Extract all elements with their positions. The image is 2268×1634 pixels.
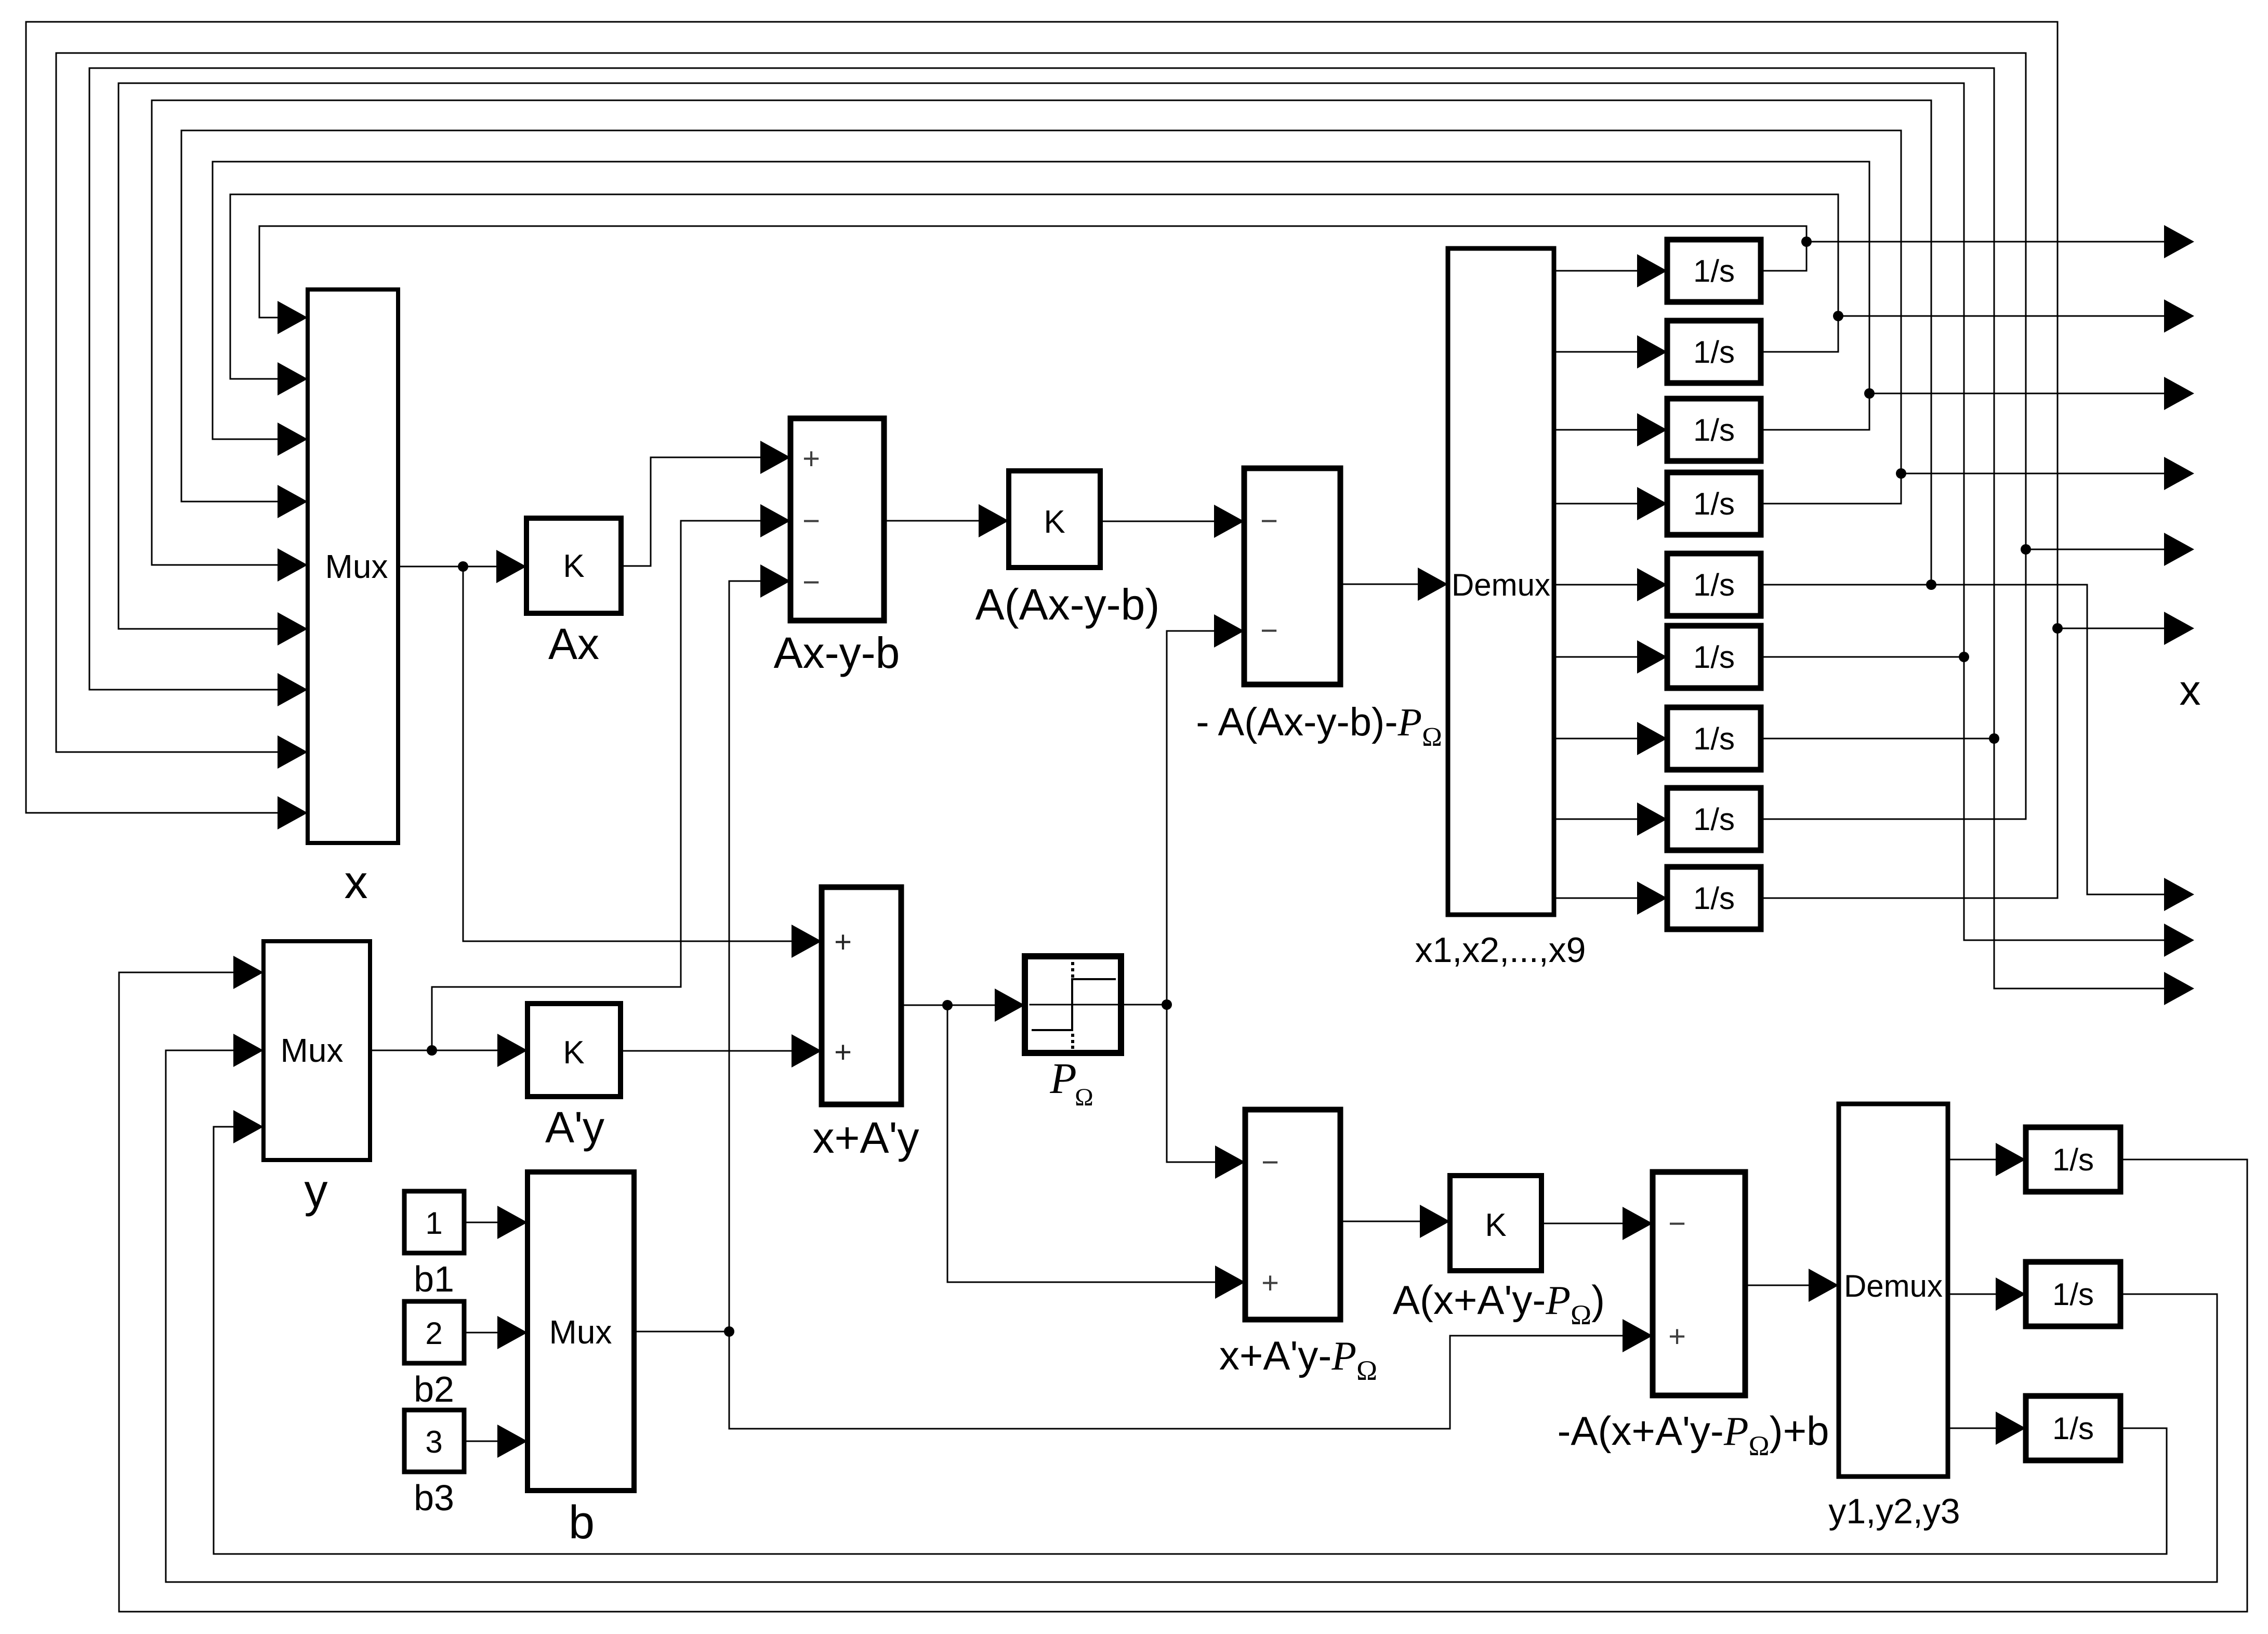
sum block x+A'y-P_Omega xyxy=(1245,1110,1340,1320)
svg-text:Mux: Mux xyxy=(281,1032,344,1069)
sum block Ax-y-b xyxy=(790,418,884,621)
integrator block 1/s y2 xyxy=(2026,1262,2120,1326)
svg-text:3: 3 xyxy=(425,1425,442,1459)
svg-text:Mux: Mux xyxy=(325,548,388,585)
junction + output arrow x3 xyxy=(1864,388,1875,399)
feedback wire integrator 9 around top to Mux-x input 9 xyxy=(26,22,2058,898)
mux block X (9-input Mux) xyxy=(308,289,398,843)
wire Demux x output 7 to integrator 1/s #7 xyxy=(1554,738,1637,740)
wire x+A'y tap down to sum x+A'y-P plus input xyxy=(947,1005,1215,1282)
svg-text:K: K xyxy=(1485,1207,1506,1243)
wire sum Ax-y-b to gain A(Ax-y-b) xyxy=(884,520,979,522)
mux block Y (3-input Mux) xyxy=(263,941,370,1160)
svg-text:1/s: 1/s xyxy=(2052,1277,2094,1312)
wire sum2 to Demux x xyxy=(1340,584,1418,585)
integrator block 1/s #3 xyxy=(1667,399,1761,461)
integrator block 1/s #2 xyxy=(1667,321,1761,383)
svg-text:x: x xyxy=(345,856,368,908)
svg-text:Demux: Demux xyxy=(1844,1269,1943,1303)
saturation block P_Omega xyxy=(1025,956,1121,1053)
junction + output arrow x8 (fifth arrow) xyxy=(2021,544,2031,555)
feedback wire integrator y2 around bottom to Mux-y input 2 xyxy=(166,1050,2217,1582)
feedback wire integrator y3 around bottom to Mux-y input 3 xyxy=(214,1127,2167,1554)
wire Demux x output 1 to integrator 1/s #1 xyxy=(1554,270,1637,272)
svg-text:b: b xyxy=(569,1497,595,1549)
svg-text:−: − xyxy=(1668,1207,1686,1241)
svg-text:1: 1 xyxy=(425,1206,442,1241)
wire sum5 to Demux y xyxy=(1745,1285,1809,1286)
integrator block 1/s #9 xyxy=(1667,867,1761,929)
wire constant 3 to Mux b input 3 xyxy=(464,1441,497,1442)
svg-text:y1,y2,y3: y1,y2,y3 xyxy=(1828,1492,1960,1531)
junction + output arrow x2 xyxy=(1833,311,1843,321)
wire gain A(x+A'y-P) to sum5 minus input xyxy=(1541,1223,1623,1224)
wire integrator7 down to lower output arrow xyxy=(1994,739,2165,989)
sum block x+A'y xyxy=(822,887,901,1104)
wire Mux-x output to gain Ax xyxy=(398,566,496,568)
mux block b (3-input Mux) xyxy=(528,1172,634,1491)
svg-text:K: K xyxy=(563,548,584,584)
wire Demux y output 2 to integrator 1/s y2 xyxy=(1948,1294,1996,1295)
wire gain A'y to sum x+A'y input 2 xyxy=(621,1050,792,1052)
feedback wire integrator 1 around top to Mux-x input 1 xyxy=(259,226,1807,318)
integrator block 1/s #4 xyxy=(1667,472,1761,535)
wire gain A(Ax-y-b) to sum -A(Ax-y-b)-P xyxy=(1100,521,1214,522)
constant block 2 (value 2) xyxy=(404,1301,464,1363)
junction + output arrow x9 (sixth arrow) xyxy=(2052,623,2063,634)
wire Demux x output 2 to integrator 1/s #2 xyxy=(1554,351,1637,353)
svg-text:1/s: 1/s xyxy=(1693,335,1735,370)
svg-text:+: + xyxy=(802,442,820,476)
wire Demux x output 6 to integrator 1/s #6 xyxy=(1554,656,1637,658)
wire Demux y output 3 to integrator 1/s y3 xyxy=(1948,1428,1996,1429)
wire Demux x output 3 to integrator 1/s #3 xyxy=(1554,429,1637,431)
wire Demux x output 4 to integrator 1/s #4 xyxy=(1554,503,1637,505)
wire saturation output to junction xyxy=(1121,1004,1167,1006)
svg-text:−: − xyxy=(1261,1145,1279,1179)
svg-text:1/s: 1/s xyxy=(1693,486,1735,521)
feedback wire integrator y1 around bottom to Mux-y input 1 xyxy=(119,972,2247,1612)
feedback wire integrator 5 around top to Mux-x input 5 xyxy=(152,100,1931,585)
svg-text:+: + xyxy=(834,1035,852,1069)
svg-text:Ω: Ω xyxy=(1075,1084,1093,1111)
svg-text:1/s: 1/s xyxy=(1693,721,1735,756)
integrator block 1/s y3 xyxy=(2026,1396,2120,1460)
svg-text:x1,x2,...,x9: x1,x2,...,x9 xyxy=(1415,930,1586,970)
feedback wire integrator 2 around top to Mux-x input 2 xyxy=(230,194,1838,379)
svg-text:-A(x+A'y-PΩ)+b: -A(x+A'y-PΩ)+b xyxy=(1557,1408,1829,1461)
feedback wire integrator 6 around top to Mux-x input 6 xyxy=(118,83,1964,657)
wire Demux x output 9 to integrator 1/s #9 xyxy=(1554,898,1637,899)
svg-text:−: − xyxy=(1260,504,1278,538)
wire Mux-b output to junction xyxy=(634,1331,729,1333)
wire Mux-y output to gain A'y xyxy=(370,1050,497,1051)
wire junction down to sum x+A'y-P minus input xyxy=(1167,1005,1215,1162)
integrator block 1/s #7 xyxy=(1667,707,1761,770)
svg-text:1/s: 1/s xyxy=(1693,640,1735,675)
integrator block 1/s y1 xyxy=(2026,1127,2120,1192)
svg-text:Ax: Ax xyxy=(548,620,599,668)
demux block x1..x9 xyxy=(1448,248,1554,915)
wire b signal down and right to sum5 plus input xyxy=(729,1332,1623,1429)
junction + jog wire integrator5 to lower output arrow xyxy=(1926,579,1936,590)
wire sum x+A'y to saturation P_Omega xyxy=(901,1005,995,1006)
wire sum4 to gain A(x+A'y-P) xyxy=(1340,1221,1420,1222)
svg-text:1/s: 1/s xyxy=(1693,413,1735,447)
svg-text:x: x xyxy=(2180,667,2201,714)
wire constant 2 to Mux b input 2 xyxy=(464,1332,497,1334)
svg-text:x+A'y: x+A'y xyxy=(812,1113,919,1162)
svg-text:y: y xyxy=(305,1165,328,1217)
constant block 3 (value 3) xyxy=(404,1410,464,1472)
svg-text:P: P xyxy=(1049,1055,1076,1103)
wire constant 1 to Mux b input 1 xyxy=(464,1222,497,1223)
svg-text:1/s: 1/s xyxy=(1693,254,1735,288)
svg-text:b1: b1 xyxy=(414,1259,454,1299)
integrator block 1/s #1 xyxy=(1667,240,1761,302)
junction + output arrow x4 xyxy=(1896,468,1906,479)
wire gain Ax to sum Ax-y-b plus input xyxy=(621,457,760,566)
svg-text:−: − xyxy=(1260,614,1278,648)
wire b signal up to sum Ax-y-b input 3 xyxy=(729,581,760,1332)
svg-text:1/s: 1/s xyxy=(2052,1142,2094,1177)
demux block y1,y2,y3 xyxy=(1839,1104,1948,1477)
feedback wire integrator 8 around top to Mux-x input 8 xyxy=(56,53,2026,819)
svg-text:b2: b2 xyxy=(414,1369,454,1409)
svg-text:Demux: Demux xyxy=(1452,568,1550,602)
wire y signal from Mux-y output up to sum Ax-y-b input 2 xyxy=(432,521,760,1050)
svg-text:Ax-y-b: Ax-y-b xyxy=(774,628,900,677)
feedback wire integrator 7 around top to Mux-x input 7 xyxy=(89,68,1994,739)
svg-text:−: − xyxy=(802,504,820,538)
svg-text:A(Ax-y-b): A(Ax-y-b) xyxy=(975,580,1160,629)
integrator block 1/s #8 xyxy=(1667,788,1761,850)
integrator block 1/s #5 xyxy=(1667,554,1761,616)
sum block -A(Ax-y-b)-P_Omega xyxy=(1244,468,1340,684)
svg-text:+: + xyxy=(1668,1320,1686,1353)
gain block K (Ax) xyxy=(526,518,621,613)
svg-text:−: − xyxy=(802,565,820,599)
integrator block 1/s #6 xyxy=(1667,626,1761,688)
wire x signal from Mux-x output down to sum x+A'y input 1 xyxy=(463,566,792,941)
svg-text:Mux: Mux xyxy=(549,1313,612,1351)
wire integrator6 down to lower output arrow xyxy=(1964,657,2165,940)
feedback wire integrator 4 around top to Mux-x input 4 xyxy=(181,130,1901,504)
junction + output arrow x1 xyxy=(1801,236,1812,247)
gain block K (A'y) xyxy=(528,1004,621,1097)
gain block K (A(x+A'y-P)) xyxy=(1450,1176,1541,1271)
feedback wire integrator 3 around top to Mux-x input 3 xyxy=(213,162,1869,439)
svg-text:1/s: 1/s xyxy=(2052,1411,2094,1446)
wire Demux y output 1 to integrator 1/s y1 xyxy=(1948,1159,1996,1161)
svg-text:A'y: A'y xyxy=(545,1103,604,1152)
svg-text:1/s: 1/s xyxy=(1693,881,1735,916)
svg-text:1/s: 1/s xyxy=(1693,568,1735,602)
svg-text:b3: b3 xyxy=(414,1478,454,1518)
svg-text:1/s: 1/s xyxy=(1693,802,1735,837)
wire Demux x output 5 to integrator 1/s #5 xyxy=(1554,584,1637,586)
gain block K (A(Ax-y-b)) xyxy=(1009,471,1100,568)
wire Demux x output 8 to integrator 1/s #8 xyxy=(1554,819,1637,820)
svg-text:K: K xyxy=(563,1035,584,1071)
wire junction up to sum2 minus input 2 xyxy=(1167,631,1214,1005)
svg-text:+: + xyxy=(1261,1266,1279,1300)
sum block -A(x+A'y-P)+b xyxy=(1653,1172,1745,1395)
svg-text:K: K xyxy=(1044,504,1065,540)
constant block 1 (value 1) xyxy=(404,1191,464,1253)
svg-text:+: + xyxy=(834,925,852,959)
svg-text:2: 2 xyxy=(425,1316,442,1351)
svg-text:x+A'y-PΩ: x+A'y-PΩ xyxy=(1219,1333,1377,1386)
